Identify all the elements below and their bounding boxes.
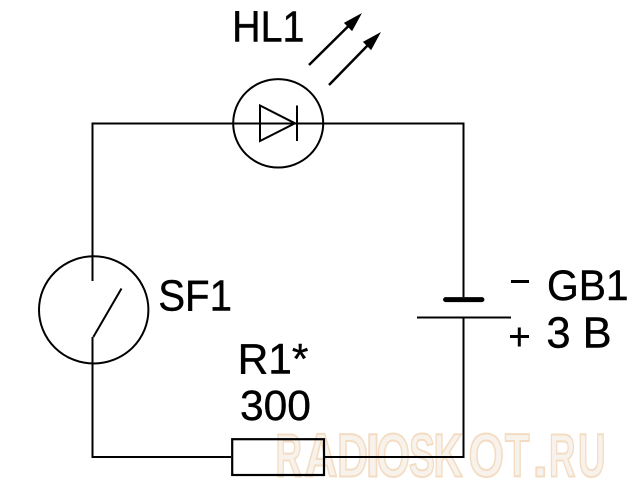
LED HL1 anode triangle <box>260 106 295 142</box>
wire left upper (top corner to switch contact) <box>92 123 94 282</box>
svg-text:R1*: R1* <box>238 336 309 383</box>
battery minus sign <box>511 280 529 283</box>
wire right lower (battery to bottom corner) <box>463 318 465 458</box>
svg-text:U: U <box>578 421 606 480</box>
switch SF1 blade <box>93 289 121 338</box>
svg-text:HL1: HL1 <box>232 4 304 52</box>
LED light arrow 2 <box>329 32 381 85</box>
svg-text:D: D <box>337 421 368 480</box>
svg-text:300: 300 <box>240 383 311 430</box>
LED HL1 cathode bar <box>296 106 298 142</box>
svg-text:O: O <box>469 421 505 480</box>
svg-text:S: S <box>409 421 435 480</box>
watermark RADIOSKOT.RU <box>276 421 606 480</box>
svg-text:3 В: 3 В <box>546 309 611 357</box>
LED HL1 circle <box>233 79 323 167</box>
svg-text:GB1: GB1 <box>547 263 629 310</box>
svg-text:A: A <box>305 421 338 480</box>
wire right upper (top corner to battery) <box>463 123 465 298</box>
svg-text:R: R <box>276 421 303 480</box>
svg-text:O: O <box>377 421 411 480</box>
LED light arrow 1 <box>309 13 362 65</box>
svg-text:R: R <box>549 421 576 480</box>
svg-text:K: K <box>434 421 463 480</box>
svg-text:.: . <box>533 421 549 480</box>
wire top (node between SF1 and HL1 / HL1 and GB1) <box>93 123 464 125</box>
battery plus sign <box>510 328 529 347</box>
wire bottom right (resistor to corner) <box>325 456 465 458</box>
resistor R1 body <box>232 439 324 475</box>
svg-text:T: T <box>505 421 530 480</box>
wire bottom left (corner to resistor) <box>92 456 232 458</box>
battery GB1 short thick plate <box>446 297 482 302</box>
wire left lower (switch to bottom corner) <box>92 337 94 458</box>
battery GB1 long thin plate <box>417 317 511 319</box>
switch SF1 circle <box>39 256 148 363</box>
svg-text:SF1: SF1 <box>158 272 232 321</box>
